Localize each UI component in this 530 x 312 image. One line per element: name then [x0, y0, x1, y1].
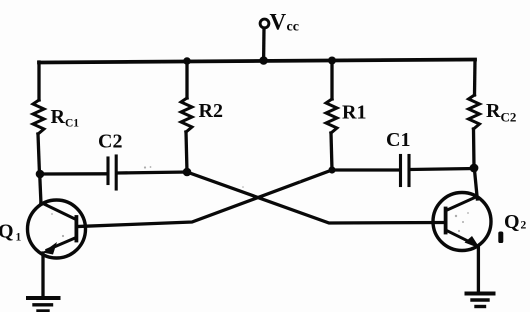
node R2 top: [183, 57, 191, 65]
svg-text:R: R: [486, 100, 501, 122]
wire C2 right: [117, 172, 187, 173]
node Vcc junction: [259, 56, 268, 65]
svg-text:R1: R1: [342, 102, 366, 124]
wire Q2 collector: [474, 168, 477, 199]
svg-text:C2: C2: [98, 131, 122, 153]
label C1: [386, 129, 410, 151]
node R1 bottom: [328, 166, 335, 173]
label C2: [98, 131, 122, 153]
artifact mark near Q2: [498, 232, 503, 244]
svg-text:Q: Q: [504, 211, 520, 233]
wire top rail: [39, 60, 475, 63]
svg-text:cc: cc: [287, 20, 299, 35]
svg-text:R: R: [51, 106, 66, 128]
resistor RC2: [469, 60, 480, 167]
svg-text:C1: C1: [386, 129, 410, 151]
resistor R2: [181, 61, 192, 172]
transistor Q2: [433, 193, 491, 251]
wire C2 left: [40, 172, 107, 175]
label RC1: [51, 106, 80, 130]
node R1 top: [328, 57, 336, 65]
resistor RC1: [33, 62, 44, 174]
label R1: [342, 102, 366, 124]
capacitor C2: [108, 156, 116, 189]
wire Q2 emitter to ground: [477, 248, 480, 293]
label RC2: [486, 100, 516, 125]
wire C1 right: [410, 169, 474, 170]
svg-text:Q: Q: [0, 221, 14, 243]
ground left: [28, 298, 59, 311]
label Q1: [0, 221, 22, 244]
node RC2/C1: [470, 164, 479, 173]
node R2 bottom: [183, 168, 192, 177]
svg-text:2: 2: [521, 220, 527, 232]
label Vcc: [270, 10, 299, 35]
ground right: [467, 294, 494, 307]
wire cross diagonal R2-to-Q2base: [187, 172, 444, 223]
scan speckles: [51, 166, 469, 237]
node RC1/C2: [36, 170, 45, 179]
wire Q1 collector: [40, 174, 41, 204]
transistor Q1: [28, 200, 86, 258]
Vcc terminal: [260, 19, 269, 28]
svg-text:R2: R2: [199, 100, 223, 122]
capacitor C1: [401, 156, 410, 186]
svg-text:V: V: [270, 10, 287, 35]
svg-text:C2: C2: [501, 110, 517, 125]
wire cross diagonal R1-to-Q1base: [78, 170, 332, 227]
wire Q1 emitter to ground: [41, 253, 44, 297]
svg-text:1: 1: [16, 232, 22, 244]
wire R1 bottom to C1: [332, 168, 399, 171]
resistor R1: [326, 60, 337, 170]
svg-text:C1: C1: [65, 118, 79, 130]
label R2: [199, 100, 223, 122]
label Q2: [504, 211, 527, 233]
wire Vcc to rail: [262, 28, 266, 61]
